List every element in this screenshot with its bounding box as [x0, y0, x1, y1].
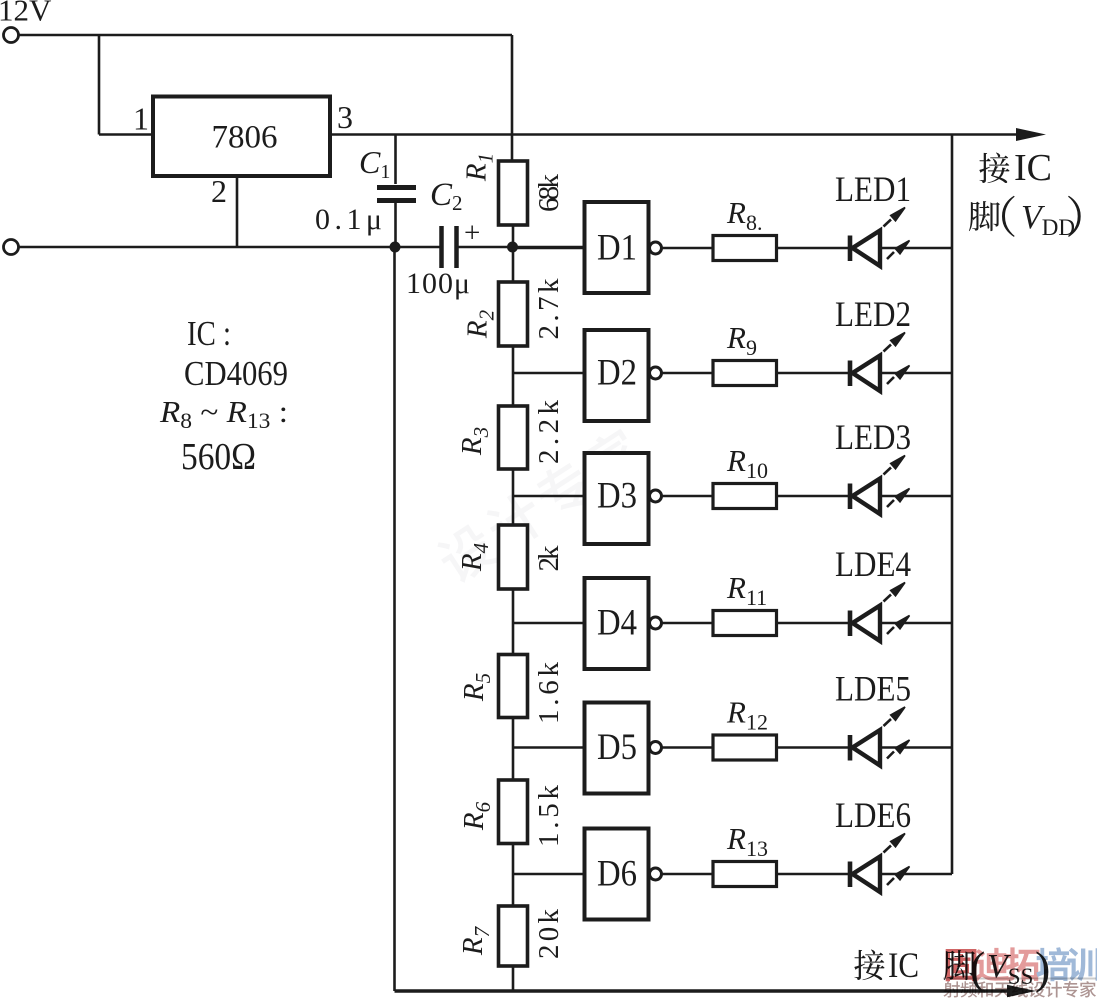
svg-text:12V: 12V — [0, 0, 52, 28]
svg-text:2.2k: 2.2k — [533, 400, 565, 465]
svg-text:LDE5: LDE5 — [835, 669, 911, 709]
svg-text:1.5k: 1.5k — [533, 785, 565, 848]
svg-text:7806: 7806 — [212, 120, 278, 156]
svg-text:LED2: LED2 — [835, 294, 911, 334]
svg-text:CD4069: CD4069 — [184, 354, 288, 393]
svg-text:LDE6: LDE6 — [835, 795, 911, 835]
svg-text:D5: D5 — [597, 727, 637, 768]
svg-text:560Ω: 560Ω — [181, 436, 256, 478]
svg-text:D4: D4 — [597, 603, 637, 644]
svg-text:IC: IC — [1014, 147, 1052, 189]
svg-text:68k: 68k — [533, 174, 565, 213]
svg-text:2k: 2k — [533, 545, 565, 572]
svg-text:LED1: LED1 — [835, 169, 911, 209]
svg-text:D1: D1 — [597, 228, 637, 269]
svg-text:LDE4: LDE4 — [835, 544, 911, 584]
svg-text:+: + — [464, 217, 480, 249]
svg-text:3: 3 — [337, 99, 353, 135]
svg-text:100μ: 100μ — [406, 267, 470, 300]
svg-text:IC :: IC : — [187, 314, 231, 353]
svg-text:D2: D2 — [597, 353, 637, 394]
svg-text:2.7k: 2.7k — [533, 278, 565, 340]
svg-text:LED3: LED3 — [835, 417, 911, 457]
svg-text:1: 1 — [133, 101, 149, 137]
svg-text:D6: D6 — [597, 854, 637, 895]
svg-text:1.6k: 1.6k — [533, 662, 565, 725]
svg-text:IC: IC — [888, 945, 919, 985]
svg-text:0.1μ: 0.1μ — [315, 203, 382, 236]
svg-text:20k: 20k — [533, 909, 565, 960]
svg-text:2: 2 — [211, 173, 227, 209]
svg-text:D3: D3 — [597, 476, 637, 517]
